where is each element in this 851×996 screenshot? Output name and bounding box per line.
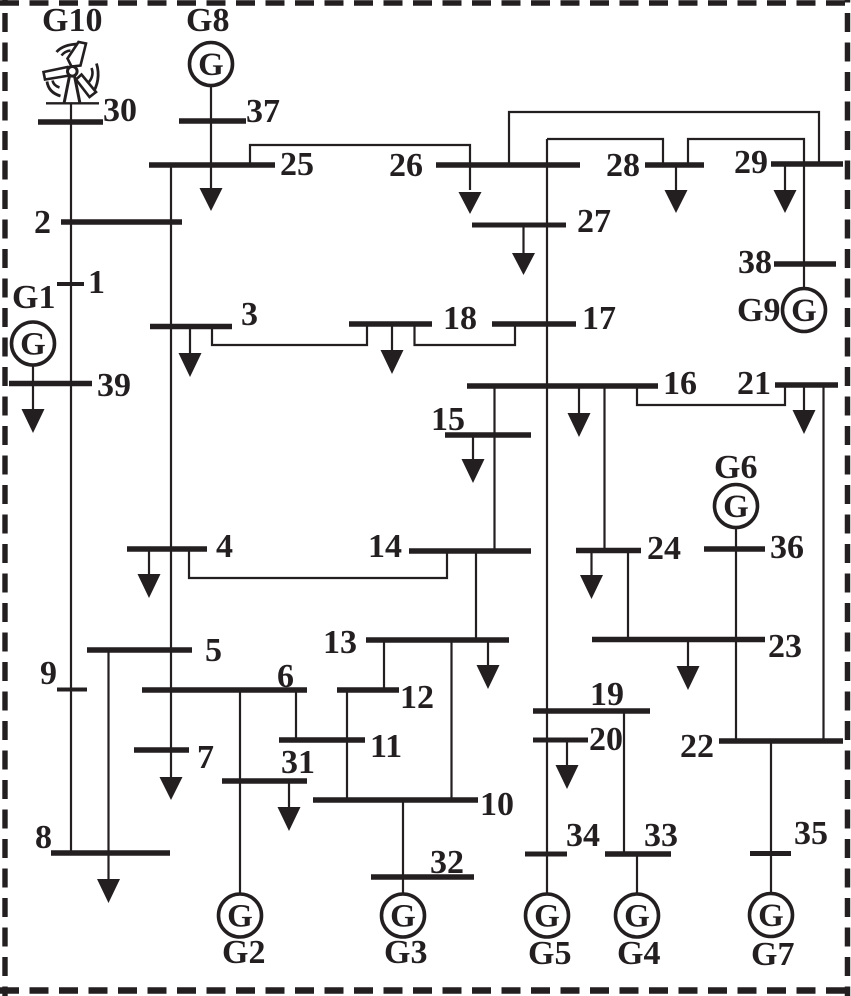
svg-text:15: 15 <box>431 401 465 438</box>
svg-text:G: G <box>723 489 749 525</box>
svg-text:29: 29 <box>734 144 768 181</box>
svg-text:8: 8 <box>35 819 52 856</box>
svg-text:30: 30 <box>103 92 137 129</box>
svg-text:11: 11 <box>370 728 402 765</box>
svg-text:17: 17 <box>582 300 616 337</box>
svg-text:32: 32 <box>430 844 464 881</box>
svg-text:34: 34 <box>566 817 600 854</box>
svg-text:G8: G8 <box>186 2 229 39</box>
svg-text:22: 22 <box>680 728 714 765</box>
svg-text:18: 18 <box>443 300 477 337</box>
svg-text:31: 31 <box>281 744 315 781</box>
svg-text:G3: G3 <box>384 934 427 971</box>
svg-text:33: 33 <box>644 817 678 854</box>
svg-text:10: 10 <box>480 786 514 823</box>
svg-text:G: G <box>227 899 253 935</box>
svg-text:28: 28 <box>606 147 640 184</box>
svg-text:G2: G2 <box>222 934 265 971</box>
svg-text:5: 5 <box>205 632 222 669</box>
svg-text:G: G <box>390 899 416 935</box>
svg-text:26: 26 <box>389 147 423 184</box>
svg-text:G: G <box>758 898 784 934</box>
svg-text:2: 2 <box>34 204 51 241</box>
svg-text:G: G <box>624 899 650 935</box>
svg-text:19: 19 <box>590 676 624 713</box>
svg-text:38: 38 <box>738 244 772 281</box>
svg-text:4: 4 <box>216 528 233 565</box>
svg-text:21: 21 <box>737 365 771 402</box>
svg-text:20: 20 <box>589 721 623 758</box>
svg-text:G: G <box>20 327 46 363</box>
svg-text:G7: G7 <box>751 936 794 973</box>
svg-text:24: 24 <box>647 530 681 567</box>
svg-text:G: G <box>534 899 560 935</box>
svg-text:G: G <box>791 293 817 329</box>
svg-text:39: 39 <box>97 367 131 404</box>
svg-text:G6: G6 <box>714 449 757 486</box>
svg-text:37: 37 <box>246 93 280 130</box>
svg-text:36: 36 <box>770 529 804 566</box>
svg-text:16: 16 <box>663 365 697 402</box>
svg-text:27: 27 <box>577 203 611 240</box>
svg-text:G5: G5 <box>528 935 571 972</box>
svg-text:6: 6 <box>277 658 294 695</box>
svg-text:G1: G1 <box>12 279 55 316</box>
svg-text:G10: G10 <box>42 2 102 39</box>
svg-text:25: 25 <box>280 146 314 183</box>
svg-text:35: 35 <box>794 815 828 852</box>
svg-text:7: 7 <box>197 739 214 776</box>
svg-text:G9: G9 <box>737 292 780 329</box>
svg-text:G4: G4 <box>617 935 660 972</box>
svg-text:G: G <box>198 47 224 83</box>
svg-text:14: 14 <box>368 528 402 565</box>
svg-text:1: 1 <box>88 264 105 301</box>
svg-text:3: 3 <box>241 296 258 333</box>
svg-text:23: 23 <box>768 628 802 665</box>
svg-text:12: 12 <box>400 679 434 716</box>
svg-text:13: 13 <box>323 624 357 661</box>
svg-text:9: 9 <box>40 655 57 692</box>
